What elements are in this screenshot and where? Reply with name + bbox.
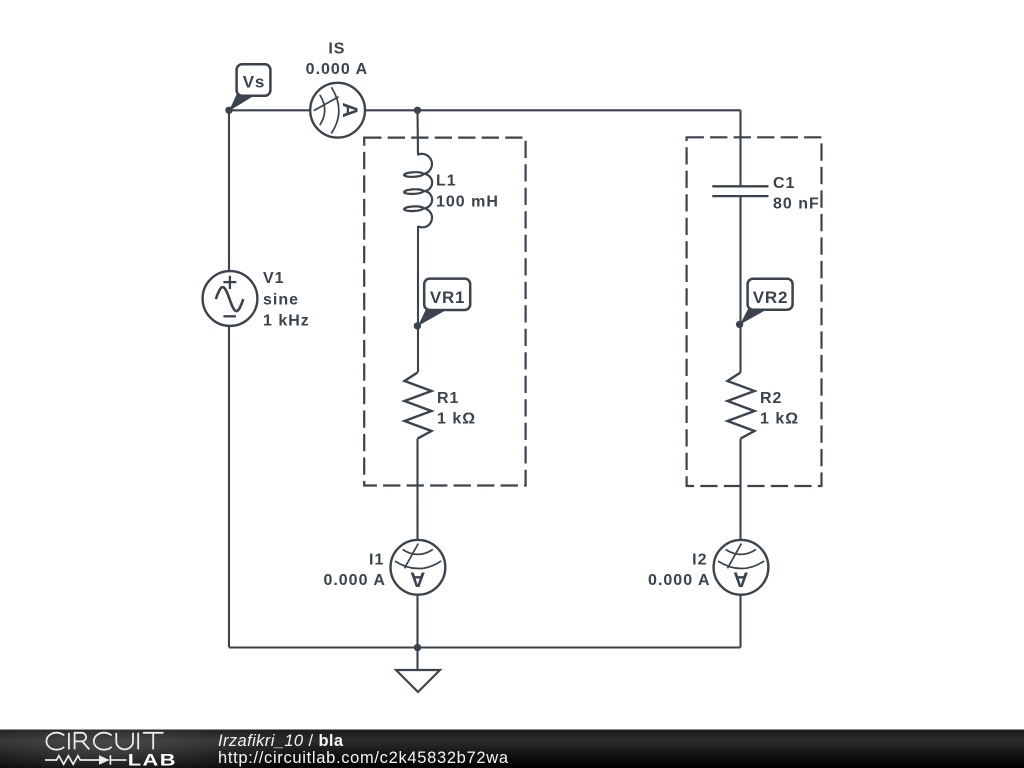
svg-text:80 nF: 80 nF <box>773 196 820 213</box>
dashed box around C1+R2 <box>687 137 822 486</box>
ammeter IS <box>310 83 365 138</box>
svg-text:IS: IS <box>328 40 345 57</box>
svg-text:A: A <box>338 102 361 117</box>
svg-text:I1: I1 <box>369 551 384 568</box>
wire top net Vs <box>229 109 741 111</box>
svg-text:0.000 A: 0.000 A <box>323 572 385 589</box>
svg-text:Vs: Vs <box>243 73 265 92</box>
inductor L1 <box>404 154 432 227</box>
svg-text:A: A <box>733 568 748 591</box>
svg-text:R2: R2 <box>760 390 782 407</box>
svg-text:0.000 A: 0.000 A <box>648 572 710 589</box>
dashed box around L1+R1 <box>364 138 525 486</box>
svg-text:C1: C1 <box>773 175 795 192</box>
wire branch 1 lower (R1 to I1 to bottom) <box>416 439 418 648</box>
svg-text:LAB: LAB <box>128 752 177 768</box>
node label Vs <box>229 64 270 111</box>
node junction top-left <box>225 107 232 114</box>
ground symbol <box>396 648 440 693</box>
svg-text:1 kHz: 1 kHz <box>263 313 310 330</box>
svg-text:1 kΩ: 1 kΩ <box>760 411 799 428</box>
node junction ground <box>414 644 421 651</box>
svg-text:A: A <box>410 568 425 591</box>
svg-text:http://circuitlab.com/c2k45832: http://circuitlab.com/c2k45832b72wa <box>218 749 509 767</box>
wire branch 1 middle (L1 to R1, node VR1) <box>417 226 419 373</box>
svg-text:L1: L1 <box>436 172 457 189</box>
wire branch 2 upper (top to C1) <box>739 110 741 185</box>
node label VR2 <box>740 279 793 325</box>
footer logo CIRCUIT <box>46 733 163 750</box>
svg-text:VR1: VR1 <box>430 288 465 307</box>
svg-text:V1: V1 <box>263 270 285 287</box>
node label VR1 <box>418 279 470 326</box>
resistor R2 <box>728 373 755 439</box>
voltage source V1 <box>203 271 258 326</box>
svg-text:sine: sine <box>263 291 299 308</box>
node junction VR1 <box>414 322 421 329</box>
svg-text:R1: R1 <box>437 390 459 407</box>
capacitor C1 <box>712 186 768 196</box>
svg-text:0.000 A: 0.000 A <box>306 61 368 78</box>
wire branch 1 upper (node Vs to L1) <box>416 110 419 155</box>
svg-text:VR2: VR2 <box>753 288 788 307</box>
svg-text:1 kΩ: 1 kΩ <box>437 411 476 428</box>
wire branch 2 middle (C1 to R2, node VR2) <box>739 197 741 373</box>
svg-text:100 mH: 100 mH <box>436 193 499 210</box>
svg-text:I2: I2 <box>692 551 707 568</box>
ammeter I2 <box>714 540 769 595</box>
wire bottom net <box>229 646 741 648</box>
node junction branch1 top <box>414 107 421 114</box>
wire branch 2 lower (R2 to I2 to bottom) <box>739 439 741 648</box>
resistor R1 <box>405 373 432 439</box>
node junction VR2 <box>736 321 743 328</box>
svg-text:Irzafikri_10 / bla: Irzafikri_10 / bla <box>218 732 344 750</box>
ammeter I1 <box>391 540 446 595</box>
footer logo resistor-diode glyph <box>45 755 127 765</box>
wire left branch (V1) <box>228 110 230 647</box>
